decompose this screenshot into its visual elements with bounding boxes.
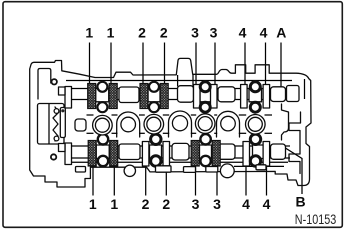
svg-text:4: 4 (242, 196, 250, 212)
bearing cap unit 2 top (hatched) (140, 82, 168, 112)
svg-text:3: 3 (191, 25, 199, 41)
left inner block (38, 69, 51, 100)
svg-text:4: 4 (260, 25, 268, 41)
engine outer outline (30, 58, 311, 187)
housing bolt top (52, 79, 57, 84)
end cap A (287, 86, 300, 102)
svg-text:4: 4 (239, 25, 247, 41)
svg-text:3: 3 (210, 25, 218, 41)
oil bore 3 (221, 116, 236, 131)
bearing cap unit 4 top (plain) (241, 82, 270, 112)
bottom leader lines (93, 163, 267, 196)
spark plug bore 4 (246, 115, 266, 135)
svg-text:1: 1 (107, 25, 115, 41)
middle band tangent links (87, 115, 273, 133)
plate bolt bottom (54, 136, 59, 141)
svg-text:2: 2 (142, 196, 150, 212)
housing bolt bottom (51, 154, 56, 159)
bottom feet (156, 166, 172, 172)
bearing cap unit 2 bottom (plain) (142, 134, 169, 166)
oil bore arch 1 (117, 112, 140, 137)
bearing cap unit 1 bottom (hatched) (88, 134, 118, 166)
svg-text:N-10153: N-10153 (295, 212, 337, 227)
leader B bent (279, 144, 302, 194)
left cam flange bottom (65, 143, 72, 165)
cam lower gasket line (72, 161, 288, 163)
left end inner plate (38, 104, 65, 145)
bottom bead boss right (220, 164, 234, 178)
oil bore arch 3 (217, 111, 240, 137)
valve cover gasket line (66, 80, 292, 82)
tower side walls (177, 75, 179, 87)
web right wall (282, 104, 289, 140)
svg-text:2: 2 (162, 196, 170, 212)
top leader lines (90, 43, 282, 94)
bottom bead boss left (124, 165, 135, 176)
oil bore arch 2 (169, 111, 192, 137)
svg-text:3: 3 (213, 196, 221, 212)
top camshaft tube (71, 88, 290, 90)
svg-text:1: 1 (110, 196, 118, 212)
ENGINE DRAWING (30, 58, 311, 187)
plate zigzag (53, 107, 59, 141)
plate bolt top (54, 109, 59, 114)
right flange inner edge (289, 112, 301, 174)
bottom cam shaft blocks (119, 144, 140, 160)
svg-text:2: 2 (160, 25, 168, 41)
svg-text:A: A (276, 25, 286, 41)
svg-text:1: 1 (89, 196, 97, 212)
web left (75, 119, 86, 131)
oil bore 2 (172, 116, 187, 131)
top cam shaft blocks (119, 87, 139, 103)
bearing cap unit 1 top (hatched) (88, 82, 118, 112)
spark plug bore 3 (195, 114, 215, 134)
bearing cap unit 3 top (plain) (194, 82, 218, 112)
left narrow column (60, 108, 65, 138)
bottom camshaft tube (71, 145, 290, 147)
lower gasket line right (234, 165, 284, 167)
spark plug bore 1 (93, 115, 113, 135)
svg-text:4: 4 (263, 196, 271, 212)
svg-text:B: B (295, 194, 305, 210)
bearing cap unit 4 bottom (plain) (243, 134, 270, 166)
right top vertical (304, 79, 306, 99)
bearing cap unit 3 bottom (hatched) (191, 134, 220, 166)
svg-text:1: 1 (85, 25, 93, 41)
svg-text:3: 3 (192, 196, 200, 212)
left cam flange top (65, 87, 72, 109)
oil bore 1 (121, 117, 136, 132)
svg-text:2: 2 (138, 25, 146, 41)
spark plug bore 2 (144, 114, 164, 134)
